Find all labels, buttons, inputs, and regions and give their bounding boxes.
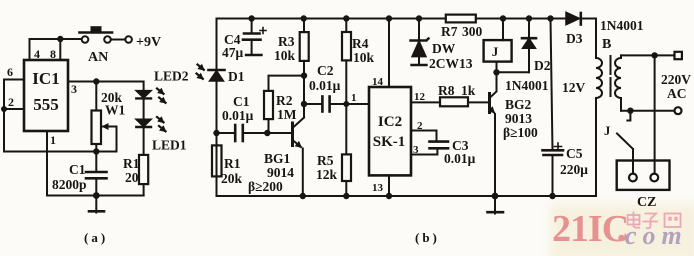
R4 label [352,36,369,51]
svg-text:12k: 12k [316,167,338,182]
svg-text:300: 300 [462,24,483,39]
svg-text:R1: R1 [123,156,140,171]
svg-text:9014: 9014 [267,165,294,180]
svg-text:220V: 220V [661,72,691,87]
ground of (b) [488,196,504,214]
node junction top tap [651,52,657,58]
wire top tap down to CZ right pin [654,55,656,173]
watermark background tint [550,204,694,256]
pin 2 label [417,120,423,132]
transformer core [610,56,612,96]
wire pin 12 to R8 [411,101,440,103]
node junction pin13 on rail [386,193,392,199]
wire pin3 node to LED chain [96,82,143,91]
node junction C5 top [547,15,553,21]
potentiometer W1 [92,82,117,152]
220V top terminal [675,52,682,59]
BG1 label [264,151,291,166]
220V label [661,72,691,87]
svg-text:R7: R7 [441,24,458,39]
svg-text:12V: 12V [562,80,586,95]
wire pin 13 to bottom rail [388,175,390,196]
svg-text:2CW13: 2CW13 [429,56,473,71]
C1b label [233,94,250,109]
svg-text:DW: DW [432,41,456,56]
svg-text:1: 1 [351,92,357,104]
svg-text:2: 2 [417,120,423,132]
R4 value 10k [353,50,375,65]
svg-text:CZ: CZ [637,195,656,210]
D2 type 1N4001 [505,78,549,93]
R5 value 12k [316,167,338,182]
capacitor C1 8200p [86,152,107,196]
svg-text:LED2: LED2 [154,69,189,84]
capacitor C2 [304,97,369,112]
resistor R5 [342,104,351,196]
C3 value [444,151,476,166]
pin 2 stub wire [4,108,24,110]
C4 value 47u [222,45,244,60]
svg-text:W1: W1 [105,103,126,118]
node junction C5 bottom on rail [549,193,555,199]
svg-text:1M: 1M [277,107,297,122]
R8 label [438,83,455,98]
LED2 diode [136,91,151,120]
svg-text:BG1: BG1 [264,151,291,166]
svg-text:3: 3 [71,82,77,96]
svg-text:2: 2 [8,95,14,109]
R5 label [317,153,334,168]
node junction D2 top [526,15,532,21]
CZ label [637,195,656,210]
wire pins 4,8 top tab of IC1 [30,39,61,60]
wire base node to BG1 [267,132,291,134]
node junction bottom tap [627,108,633,114]
wire left rail of (b) [216,19,218,197]
transistor BG1 9014 [293,104,305,196]
wire pin 1 to ground rail [46,131,48,196]
svg-text:IC2: IC2 [378,114,402,130]
pin 3 label [413,144,419,156]
wire top supply rail of (b) [217,18,567,20]
pin 3 stub wire [68,81,96,83]
svg-text:21IC: 21IC [552,208,628,250]
node junction at IC1 top [57,36,63,42]
capacitor C4 electrolytic [243,19,266,56]
svg-text:20k: 20k [221,171,243,186]
svg-text:10k: 10k [353,50,375,65]
LED1 light arrows [157,117,166,131]
photodiode D1 [209,70,225,81]
node junction pin14 top [386,15,392,21]
LED2 light arrows [157,89,166,103]
D3 label [566,31,583,46]
svg-text:R4: R4 [352,36,369,51]
pin 3 label [71,82,77,96]
relay coil J [484,19,512,73]
D3 type 1N4001 [600,18,644,33]
wire bottom rail of (b) [217,195,595,197]
R1b label [224,156,241,171]
pin 1 label [351,92,357,104]
svg-text:C2: C2 [317,63,334,78]
svg-text:AN: AN [88,50,108,65]
svg-text:C5: C5 [566,146,583,161]
capacitor C3 [430,142,449,149]
pushbutton AN actuator bar [80,26,113,32]
svg-text:R2: R2 [276,93,293,108]
wire 220V bottom tap [621,110,674,112]
svg-text:C1: C1 [233,94,250,109]
resistor R1 [139,155,148,196]
node junction W1 bottom / C1 top [93,148,99,154]
svg-text:C1: C1 [69,162,86,177]
C5 label [566,146,583,161]
pin 4 label [34,47,40,61]
svg-text:R1: R1 [224,156,241,171]
C1 label [69,162,86,177]
node junction C4 top [248,15,254,21]
pin 6 stub wire [4,79,24,81]
node junction BG1 emitter on rail [300,193,306,199]
C2 label [317,63,334,78]
node junction relay J top [500,15,506,21]
pin 13 label [372,182,384,194]
BG2 type 9013 [505,111,532,126]
svg-text:D3: D3 [566,31,583,46]
relay contact J fixed stub [627,111,630,121]
pin 1 label [50,133,56,147]
wire bottom rail of (a) [47,195,144,197]
resistor R8 [440,97,490,106]
BG1 beta label [248,179,283,194]
node junction DW top [416,15,422,21]
B label [602,37,611,52]
wire contact arm to CZ left pin [632,149,634,174]
DW label [432,41,456,56]
node junction R4/R5/C2/pin1 [343,101,349,107]
watermark chinese dian glyph [628,212,641,228]
svg-text:1N4001: 1N4001 [505,78,549,93]
wire top rail after D3 [581,18,596,20]
C3 label [452,138,469,153]
capacitor C5 electrolytic [543,19,564,197]
R2 value 1M [277,107,297,122]
node junction pin3 [93,78,99,84]
svg-text:1: 1 [50,133,56,147]
12V label [562,80,586,95]
svg-text:0.01μ: 0.01μ [222,108,254,123]
op-amp timer IC1 555 box [24,60,68,131]
ground of (a) [89,196,104,213]
W1 label [105,103,126,118]
node junction C1 bottom on rail [93,192,100,199]
resistor R7 inline on rail [446,15,476,23]
R7 value 300 [462,24,483,39]
R2 label [276,93,293,108]
R3 value 10k [274,48,296,63]
svg-text:9013: 9013 [505,111,532,126]
220V bottom terminal [675,107,682,114]
BG2 label [505,97,532,112]
pin 6 label [7,65,13,79]
diode D3 1N4001 on top rail [566,12,581,24]
pin 12 label [414,91,426,103]
wire switch to +9V terminal [111,39,126,41]
IC2 SK-1 box [369,87,411,175]
svg-text:com: com [625,221,688,250]
svg-text:47μ: 47μ [222,45,244,60]
wire left rail down and across [4,80,117,152]
svg-text:J: J [492,44,499,59]
BG2 beta label [503,125,538,140]
DW type 2CW13 [429,56,473,71]
node junction R3 top [301,15,307,21]
resistor R4 [342,19,351,105]
D1 label [228,69,245,84]
node junction R3 bottom / R2 top [301,72,307,78]
node junction J bottom / D2 / BG2 collector [493,69,499,75]
svg-text:555: 555 [33,95,59,114]
R8 value 1k [461,83,476,98]
pushbutton switch AN terminal 1 [82,36,89,43]
svg-text:BG2: BG2 [505,97,532,112]
wire J bottom to D2 [497,71,530,73]
resistor R1 of (b) [212,145,222,176]
R1b value 20k [221,171,243,186]
BG1 type 9014 [267,165,294,180]
wire R3 node down to C2 node [303,76,305,104]
wire to switch [60,38,81,40]
svg-text:R5: R5 [317,153,334,168]
resistor R3 [300,19,309,76]
wire 220V top tap [621,54,675,56]
svg-text:12: 12 [414,91,426,103]
node junction C2 left / BG1 collector [301,101,307,107]
svg-text:SK-1: SK-1 [373,134,406,150]
LED2 label [154,69,189,84]
pin 8 label [50,47,56,61]
C1 value 8200p [52,177,87,192]
svg-text:D1: D1 [228,69,245,84]
svg-text:B: B [602,37,611,52]
svg-text:(a): (a) [84,230,108,245]
svg-text:1N4001: 1N4001 [600,18,644,33]
wire pin 14 to top rail [388,19,390,88]
svg-text:8: 8 [50,47,56,61]
svg-text:D2: D2 [534,58,551,73]
node junction R4 top [343,15,349,21]
svg-text:6: 6 [7,65,13,79]
(a) caption [84,230,108,245]
wire pin 2 to C3 top [411,131,437,142]
R7 label [441,24,458,39]
svg-text:(b): (b) [415,230,440,245]
(b) caption [415,230,440,245]
node junction BG2 emitter / ground on rail [492,193,499,200]
pin 2 label [8,95,14,109]
LED1 label [152,138,187,153]
node junction R5 bottom on rail [343,193,349,199]
D1 light arrows [197,65,204,79]
svg-text:220μ: 220μ [560,162,588,177]
socket CZ box [617,161,670,190]
AN label [88,50,108,65]
svg-text:10k: 10k [274,48,296,63]
svg-text:14: 14 [372,76,384,88]
pushbutton switch AN terminal 2 [104,36,111,43]
watermark chinese wang glyph [665,214,681,228]
+9V supply terminal [125,36,132,43]
svg-text:R3: R3 [278,34,295,49]
diode D2 1N4001 [522,19,536,73]
C5 value 220u [560,162,588,177]
wire pin 3 to C3 bottom [411,149,437,155]
R3 label [278,34,295,49]
R1 label [123,156,140,171]
+9V label [136,35,161,50]
svg-text:1k: 1k [461,83,476,98]
C1b value [222,108,254,123]
watermark chinese zi glyph [643,214,659,229]
node junction base wire [264,130,270,136]
svg-text:β≥100: β≥100 [503,125,538,140]
node junction C1b on left rail [213,130,219,136]
svg-text:J: J [604,124,610,138]
svg-text:β≥200: β≥200 [248,179,283,194]
svg-text:R8: R8 [438,83,455,98]
svg-text:13: 13 [372,182,384,194]
D2 label [534,58,551,73]
R1 value 20 [125,170,139,185]
relay contact J arm [617,134,633,150]
W1 value label 20k [101,90,123,105]
svg-text:3: 3 [413,144,419,156]
svg-text:IC1: IC1 [32,69,59,88]
svg-text:20: 20 [125,170,139,185]
node junction pin2/pin6 rail [1,106,7,112]
LED1 diode [136,119,151,155]
watermark dot [618,235,624,241]
transistor BG2 9013 [490,72,497,196]
svg-text:AC: AC [667,86,687,101]
contact J label [604,124,610,138]
svg-text:0.01μ: 0.01μ [309,78,341,93]
C4 label [224,32,241,47]
AC label [667,86,687,101]
capacitor C1 of (b) [217,125,268,141]
svg-text:0.01μ: 0.01μ [444,151,476,166]
zener diode DW 2CW13 [411,19,429,66]
svg-text:8200p: 8200p [52,177,87,192]
C2 value [309,78,341,93]
transformer secondary 220V winding [615,55,621,110]
pin 14 label [372,76,384,88]
transformer B primary 12V winding [596,19,602,197]
svg-text:+9V: +9V [136,35,161,50]
svg-text:LED1: LED1 [152,138,187,153]
svg-text:4: 4 [34,47,40,61]
resistor R2 [264,76,304,133]
